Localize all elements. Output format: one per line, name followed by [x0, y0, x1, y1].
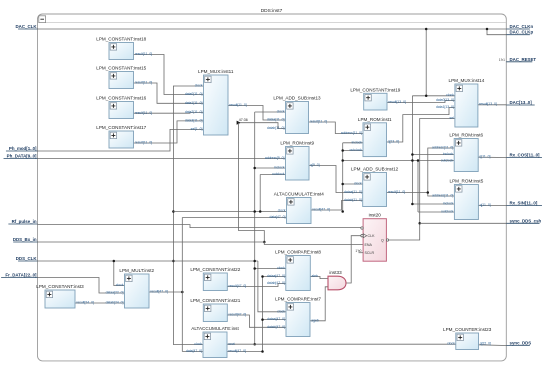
- svg-text:q[22..0]: q[22..0]: [480, 341, 491, 345]
- svg-text:outclock: outclock: [441, 159, 454, 163]
- svg-text:data1[11..0]: data1[11..0]: [185, 101, 203, 105]
- svg-text:datab[47..0]: datab[47..0]: [267, 325, 285, 329]
- wire: [479, 344, 507, 347]
- wire: [417, 161, 419, 213]
- junction: [261, 318, 264, 321]
- svg-text:LPM_CONSTANT:inst21: LPM_CONSTANT:inst21: [190, 298, 240, 303]
- constant 1h0 on SCLR: [355, 249, 363, 253]
- wire: [411, 96, 413, 204]
- svg-text:Rf_pulse_in: Rf_pulse_in: [12, 219, 37, 224]
- svg-text:DAC_CLKp: DAC_CLKp: [510, 30, 534, 35]
- svg-text:result[47..0]: result[47..0]: [150, 290, 168, 294]
- wire: [255, 111, 286, 113]
- svg-text:Ph_DATA[9..0]: Ph_DATA[9..0]: [7, 154, 37, 159]
- block LPM_CONSTANT:inst19: [350, 88, 406, 111]
- junction: [259, 210, 262, 213]
- svg-text:sync_DDS: sync_DDS: [510, 341, 532, 346]
- wire: [418, 211, 454, 213]
- svg-text:LPM_MUX:inst14: LPM_MUX:inst14: [449, 78, 485, 83]
- svg-text:DDS:inst7: DDS:inst7: [261, 8, 283, 14]
- svg-text:LPM_COUNTER:inst23: LPM_COUNTER:inst23: [443, 327, 492, 332]
- junction: [263, 241, 266, 244]
- svg-text:data[47..0]: data[47..0]: [186, 349, 202, 353]
- svg-text:LPM_CONSTANT:inst22: LPM_CONSTANT:inst22: [190, 267, 240, 272]
- wire: [258, 261, 286, 312]
- wire: [255, 268, 286, 270]
- junction: [427, 191, 430, 194]
- svg-text:clock: clock: [354, 182, 362, 186]
- wire: [114, 261, 125, 286]
- junction: [341, 149, 344, 152]
- wire: [343, 142, 363, 144]
- wire: [263, 319, 287, 321]
- svg-text:inst20: inst20: [369, 213, 382, 218]
- wire: [478, 205, 506, 207]
- wire: [227, 351, 263, 353]
- wire: [478, 156, 506, 158]
- output port Rx_COS[11..0]: [506, 153, 542, 158]
- input port Fr_DATA[22..0]: [1, 273, 37, 278]
- svg-text:LPM_ROM:inst1: LPM_ROM:inst1: [358, 117, 392, 122]
- wire: [420, 222, 507, 224]
- junction: [411, 159, 414, 162]
- svg-text:dataa[47..0]: dataa[47..0]: [267, 317, 285, 321]
- wire: [38, 278, 125, 294]
- svg-text:LPM_CONSTANT:inst17: LPM_CONSTANT:inst17: [96, 125, 146, 130]
- block LPM_COMPARE:inst7: [267, 297, 321, 337]
- wire: [38, 225, 363, 228]
- svg-text:LPM_ADD_SUB:inst13: LPM_ADD_SUB:inst13: [273, 96, 321, 101]
- wire: [343, 183, 363, 185]
- wire: [260, 174, 285, 176]
- svg-text:result[47..0]: result[47..0]: [312, 208, 330, 212]
- block LPM_ROM:inst5: [432, 179, 491, 220]
- svg-text:result[11..0]: result[11..0]: [310, 120, 328, 124]
- svg-text:data[47..0]: data[47..0]: [269, 215, 285, 219]
- input port Ph_mod[1..0]: [6, 146, 38, 151]
- svg-text:LPM_MUX:inst11: LPM_MUX:inst11: [198, 69, 234, 74]
- wire: [387, 108, 455, 143]
- svg-text:LPM_COMPARE:inst7: LPM_COMPARE:inst7: [275, 297, 321, 302]
- block LPM_CONSTANT:inst16: [96, 96, 152, 119]
- svg-text:aleb: aleb: [312, 274, 319, 278]
- wire: [182, 217, 286, 219]
- junction: [341, 210, 344, 213]
- input port DDS_CLK: [16, 256, 38, 261]
- svg-text:Fr_DATA[22..0]: Fr_DATA[22..0]: [5, 273, 37, 278]
- svg-text:inclock: inclock: [274, 166, 285, 170]
- wire: [487, 29, 506, 35]
- svg-text:result[13..0]: result[13..0]: [388, 100, 406, 104]
- wire: [263, 277, 286, 352]
- wire: [182, 351, 203, 353]
- input port DDS_Bx_in: [13, 237, 38, 242]
- wire: [173, 211, 286, 213]
- wire: [346, 236, 362, 283]
- junction: [181, 291, 184, 294]
- junction: [172, 210, 175, 213]
- junction: [411, 153, 414, 156]
- svg-text:LPM_ADD_SUB:inst12: LPM_ADD_SUB:inst12: [351, 167, 399, 172]
- block LPM_CONSTANT:inst3: [36, 284, 94, 308]
- input port DAC_CLK: [16, 24, 38, 29]
- svg-text:inclock: inclock: [443, 202, 454, 206]
- wire: [227, 343, 456, 345]
- svg-text:data3[11..0]: data3[11..0]: [185, 119, 203, 123]
- svg-text:inst33: inst33: [329, 270, 342, 275]
- svg-text:clock: clock: [277, 309, 285, 313]
- svg-text:CLK: CLK: [368, 234, 376, 238]
- svg-text:Ph_mod[1..0]: Ph_mod[1..0]: [9, 146, 37, 151]
- wire: [227, 315, 286, 327]
- svg-text:data0[13..0]: data0[13..0]: [436, 98, 454, 102]
- svg-text:LPM_CONSTANT:inst18: LPM_CONSTANT:inst18: [96, 37, 146, 42]
- svg-text:1'h0: 1'h0: [355, 249, 361, 253]
- output port Rx_SIN[11..0]: [506, 201, 542, 206]
- block LPM_CONSTANT:inst18: [96, 37, 152, 60]
- wire: [412, 95, 455, 97]
- output port DAC[13..0]: [506, 100, 534, 105]
- junction: [341, 159, 344, 162]
- output port sync_DDS: [506, 341, 531, 346]
- svg-text:dataa[47..0]: dataa[47..0]: [267, 274, 285, 278]
- wire: [412, 154, 454, 156]
- svg-text:q[11..0]: q[11..0]: [480, 203, 491, 207]
- svg-text:inclock: inclock: [352, 140, 363, 144]
- junction: [341, 183, 344, 186]
- wire: [310, 287, 328, 321]
- svg-text:LPM_COMPARE:inst8: LPM_COMPARE:inst8: [275, 250, 321, 255]
- block LPM_ADD_SUB:inst13: [267, 96, 327, 134]
- module frame DDS:inst7: [38, 14, 507, 361]
- junction: [113, 260, 116, 263]
- block LPM_COMPARE:inst8: [267, 250, 322, 291]
- input port Ph_DATA[9..0]: [4, 154, 38, 159]
- svg-text:result[47..0]: result[47..0]: [228, 349, 246, 353]
- wire: [478, 104, 506, 106]
- block LPM_COUNTER:inst23: [443, 327, 492, 349]
- svg-text:clock: clock: [278, 209, 286, 213]
- svg-text:q[13..0]: q[13..0]: [388, 140, 399, 144]
- svg-text:sel: sel: [450, 116, 455, 120]
- junction: [172, 260, 175, 263]
- wire: [428, 148, 454, 193]
- block ALTACCUMULATE:inst4: [269, 192, 330, 224]
- svg-text:clock: clock: [116, 283, 124, 287]
- svg-text:data1[13..0]: data1[13..0]: [436, 105, 454, 109]
- svg-text:address[11..0]: address[11..0]: [341, 131, 362, 135]
- wire: [310, 277, 328, 279]
- block LPM_ROM:inst9: [265, 141, 320, 180]
- svg-text:sync_DDS_csh: sync_DDS_csh: [510, 218, 542, 223]
- block LPM_ROM:inst1: [341, 117, 399, 157]
- svg-text:Rx_SIN[11..0]: Rx_SIN[11..0]: [510, 201, 538, 206]
- svg-text:LPM_ROM:inst5: LPM_ROM:inst5: [450, 179, 484, 184]
- wire: [173, 86, 203, 345]
- svg-text:outclock: outclock: [350, 148, 363, 152]
- svg-text:clock: clock: [446, 93, 454, 97]
- wire: [227, 284, 285, 287]
- junction: [261, 275, 264, 278]
- junction: [425, 28, 428, 31]
- svg-text:result[11..0]: result[11..0]: [135, 111, 153, 115]
- wire: [343, 160, 455, 162]
- svg-text:DAC_CLK: DAC_CLK: [16, 24, 38, 29]
- svg-text:sel[1..0]: sel[1..0]: [191, 127, 203, 131]
- svg-text:DDS_Bx_in: DDS_Bx_in: [13, 237, 37, 242]
- svg-text:result[24..0]: result[24..0]: [76, 301, 94, 305]
- block LPM_CONSTANT:inst22: [190, 267, 246, 290]
- junction: [486, 28, 489, 31]
- block LPM_MULT:inst2: [106, 268, 168, 308]
- svg-text:clock: clock: [277, 110, 285, 114]
- wire: [38, 242, 364, 245]
- block ALTACCUMULATE:inst: [186, 326, 246, 357]
- wire: [134, 112, 204, 115]
- wire: [255, 167, 286, 169]
- svg-text:outclock: outclock: [272, 172, 285, 176]
- junction: [253, 167, 256, 170]
- output port DAC_CLKp: [506, 30, 533, 35]
- junction: [425, 95, 428, 98]
- block LPM_MUX:inst14: [436, 78, 497, 127]
- svg-text:LPM_CONSTANT:inst19: LPM_CONSTANT:inst19: [350, 88, 400, 93]
- wire: [412, 203, 454, 205]
- block LPM_ADD_SUB:inst12: [344, 167, 405, 207]
- svg-text:dataa[22..0]: dataa[22..0]: [106, 291, 124, 295]
- flip-flop inst20: [361, 213, 389, 262]
- svg-text:LPM_CONSTANT:inst3: LPM_CONSTANT:inst3: [36, 284, 84, 289]
- svg-text:1'h1: 1'h1: [499, 58, 505, 62]
- svg-text:LPM_CONSTANT:inst16: LPM_CONSTANT:inst16: [96, 96, 146, 101]
- junction: [253, 210, 256, 213]
- wire: [342, 143, 344, 212]
- svg-text:result[47..0]: result[47..0]: [229, 284, 247, 288]
- svg-text:dataa[11..0]: dataa[11..0]: [267, 118, 285, 122]
- svg-text:result[11..0]: result[11..0]: [135, 52, 153, 56]
- wire: [425, 29, 427, 96]
- svg-text:data0[11..0]: data0[11..0]: [185, 92, 203, 96]
- svg-text:address[11..0]: address[11..0]: [432, 194, 453, 198]
- wire: [387, 101, 455, 103]
- svg-text:inclock: inclock: [443, 152, 454, 156]
- svg-text:DDS_CLK: DDS_CLK: [16, 256, 38, 261]
- svg-text:LPM_MULT:inst2: LPM_MULT:inst2: [119, 268, 154, 273]
- svg-text:data2[11..0]: data2[11..0]: [185, 110, 203, 114]
- svg-text:clock: clock: [194, 342, 202, 346]
- block LPM_CONSTANT:inst21: [190, 298, 246, 321]
- block LPM_CONSTANT:inst15: [96, 66, 152, 89]
- svg-text:result[11..0]: result[11..0]: [135, 141, 153, 145]
- svg-text:ageb: ageb: [311, 318, 319, 322]
- input port Rf_pulse_in: [8, 219, 37, 224]
- svg-text:DAC_CLKn: DAC_CLKn: [510, 24, 534, 29]
- wire: [309, 122, 364, 134]
- junction: [261, 350, 264, 353]
- svg-text:clock: clock: [277, 266, 285, 270]
- bus tap 47:36: [237, 118, 248, 125]
- svg-text:LPM_ROM:inst9: LPM_ROM:inst9: [280, 141, 314, 146]
- svg-text:clock: clock: [195, 84, 203, 88]
- svg-text:ALTACCUMULATE:inst: ALTACCUMULATE:inst: [191, 326, 239, 331]
- wire: [38, 129, 204, 151]
- wire: [134, 55, 204, 95]
- wire: [240, 123, 286, 129]
- junction: [411, 203, 414, 206]
- svg-text:datab[11..0]: datab[11..0]: [344, 198, 362, 202]
- svg-text:dataa[11..0]: dataa[11..0]: [344, 190, 362, 194]
- svg-text:datab[11..0]: datab[11..0]: [267, 126, 285, 130]
- output port DAC_CLKn: [506, 24, 533, 29]
- svg-text:SCLR: SCLR: [365, 251, 375, 255]
- svg-text:clock: clock: [447, 341, 455, 345]
- output port sync_DDS_csh: [506, 218, 541, 223]
- junction: [253, 267, 256, 270]
- wire: [38, 260, 258, 262]
- wire: [386, 119, 455, 241]
- svg-text:datab[24..0]: datab[24..0]: [106, 301, 124, 305]
- wire: [38, 158, 286, 160]
- and-gate inst33: [328, 270, 346, 290]
- svg-text:result[47..0]: result[47..0]: [229, 313, 247, 317]
- svg-text:DAC[13..0]: DAC[13..0]: [510, 100, 533, 105]
- wire: [259, 175, 261, 212]
- wire: [254, 112, 256, 344]
- wire: [387, 193, 455, 197]
- wire: [134, 83, 204, 103]
- svg-text:result[11..0]: result[11..0]: [135, 81, 153, 85]
- svg-text:q[11..0]: q[11..0]: [479, 155, 490, 159]
- wire: [311, 201, 363, 211]
- block LPM_ROM:inst6: [432, 133, 491, 172]
- svg-text:result[11..0]: result[11..0]: [388, 190, 406, 194]
- output port DAC_RESET: [499, 57, 537, 62]
- svg-text:q[9..0]: q[9..0]: [310, 163, 319, 167]
- junction: [253, 260, 256, 263]
- svg-text:Rx_COS[11..0]: Rx_COS[11..0]: [510, 153, 541, 158]
- svg-text:result[13..0]: result[13..0]: [479, 102, 497, 106]
- junction: [417, 159, 420, 162]
- wire: [75, 302, 125, 304]
- svg-text:47:36: 47:36: [239, 118, 248, 122]
- svg-text:ALTACCUMULATE:inst4: ALTACCUMULATE:inst4: [274, 192, 324, 197]
- junction: [418, 222, 421, 225]
- collapse button: [39, 16, 46, 23]
- svg-text:address[9..0]: address[9..0]: [265, 156, 285, 160]
- wire: [149, 291, 182, 293]
- svg-text:LPM_CONSTANT:inst15: LPM_CONSTANT:inst15: [96, 66, 146, 71]
- svg-text:Q: Q: [381, 238, 384, 242]
- svg-text:address[11..0]: address[11..0]: [432, 146, 453, 150]
- wire: [228, 106, 286, 121]
- wire: [343, 150, 363, 152]
- wire: [134, 121, 204, 143]
- svg-text:cout: cout: [228, 342, 234, 346]
- svg-text:result[11..0]: result[11..0]: [229, 103, 247, 107]
- wire: [38, 28, 507, 30]
- block LPM_MUX:inst11: [185, 69, 247, 135]
- wire: [309, 166, 363, 193]
- wire: [181, 218, 183, 352]
- svg-text:outclock: outclock: [441, 210, 454, 214]
- svg-text:LPM_ROM:inst6: LPM_ROM:inst6: [449, 133, 483, 138]
- svg-text:DAC_RESET: DAC_RESET: [510, 57, 537, 62]
- block LPM_CONSTANT:inst17: [96, 125, 152, 148]
- junction: [253, 343, 256, 346]
- svg-text:ENA: ENA: [365, 243, 373, 247]
- wire: [239, 123, 265, 242]
- svg-text:datab[47..0]: datab[47..0]: [267, 281, 285, 285]
